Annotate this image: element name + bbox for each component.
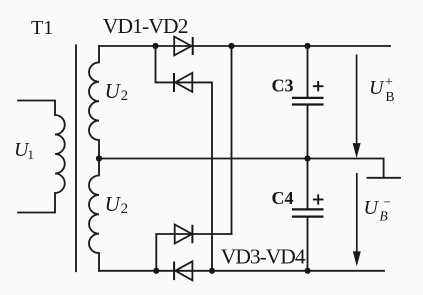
primary winding U1: [18, 101, 65, 213]
svg-text:VD3-VD4: VD3-VD4: [221, 245, 306, 269]
svg-text:B: B: [380, 209, 388, 224]
diode VD4 triangle: [175, 261, 192, 280]
junction VD2 return: [209, 268, 215, 274]
diode VD4 cathode bar: [173, 262, 175, 281]
secondary winding U2 upper: [89, 46, 99, 159]
svg-text:+: +: [385, 75, 393, 90]
junction node B: [228, 43, 234, 49]
capacitor C4 leads: [307, 159, 309, 271]
junction C3 top: [304, 43, 310, 49]
arrow UB-: [354, 173, 360, 263]
svg-text:U: U: [369, 77, 385, 99]
diode VD1 triangle: [174, 37, 191, 56]
svg-text:C3: C3: [272, 76, 294, 96]
capacitor C3 leads: [307, 46, 309, 159]
svg-text:U: U: [105, 79, 122, 103]
junction node A: [152, 43, 158, 49]
wire VD2 anode to bottom rail: [175, 82, 212, 270]
diode VD3 cathode bar: [191, 225, 193, 243]
reference terminal bar: [368, 177, 401, 179]
svg-text:2: 2: [121, 88, 129, 104]
wire node B drop to VD3: [231, 46, 233, 234]
arrow UB+: [354, 55, 360, 155]
svg-text:VD1-VD2: VD1-VD2: [103, 14, 188, 38]
svg-text:U: U: [105, 192, 122, 216]
junction C3/C4 middle: [304, 155, 310, 161]
transformer T1 core: [75, 45, 77, 271]
svg-text:C4: C4: [272, 188, 294, 208]
diode VD1 cathode bar: [192, 37, 194, 55]
svg-text:U: U: [364, 197, 380, 219]
wire bottom rail: [99, 270, 384, 272]
capacitor C4 plates: [292, 208, 324, 210]
wire VD3 branch: [156, 234, 231, 271]
label C3 plus: [313, 81, 324, 91]
junction center tap: [96, 155, 102, 161]
wire top rail: [99, 45, 390, 47]
diode VD2 cathode bar: [173, 73, 175, 92]
svg-text:B: B: [386, 89, 395, 104]
wire node A drop to VD2: [156, 46, 175, 82]
svg-text:2: 2: [121, 201, 129, 217]
junction C4 bottom: [304, 268, 310, 274]
wire middle rail: [99, 159, 384, 178]
svg-text:1: 1: [28, 147, 35, 162]
svg-text:T1: T1: [31, 17, 53, 39]
junction VD3 bottom: [153, 268, 159, 274]
capacitor C3 plates: [292, 97, 324, 99]
diode VD3 triangle: [175, 225, 192, 244]
secondary winding U2 lower: [89, 159, 99, 271]
diode VD2 triangle: [175, 73, 192, 92]
label C4 plus: [313, 194, 324, 204]
